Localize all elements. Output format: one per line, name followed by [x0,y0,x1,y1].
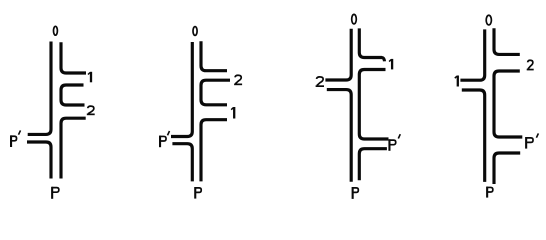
tree 3: wire from node P-prime down to node P [359,149,387,181]
tree 1: branch wire from node 0 to node 1 [61,42,86,73]
tree 2: stem wire from node 0 down then left to node P-prime [171,42,192,137]
tree 2: label 1 [233,107,235,119]
tree 3: label P [352,187,354,199]
tree 3: stem wire from node 0 down then left to node 2 [325,29,351,80]
tree 2: wire from node P-prime down to node P [172,144,192,182]
tree 1: wire from node P-prime down to node P [27,142,51,179]
tree 3: wire from node 2 down to node P [327,90,351,182]
tree 4: label 0 [486,15,491,25]
tree 4: label P [486,187,488,198]
tree 4: branch wire from node 0 to node 2 [494,28,520,54]
tree 4: label P-prime [525,137,527,149]
tree 1: label 0 [54,26,58,35]
tree 1: label 2 [88,106,94,114]
tree 1: stem wire from node 0 down then left to node P-prime [28,42,51,135]
tree 2: label 2 [235,75,241,83]
tree 3: wire from node 1 down to node P-prime [359,70,388,140]
tree 4: wire from node 2 down to node P-prime [494,71,522,137]
tree 3: branch wire from node 0 to node 1 [359,28,384,61]
tree 3: label P-prime [388,139,390,151]
tree 4: label 2 [528,60,533,69]
tree 2: branch wire from node 2 to node 1 [201,80,230,105]
tree 1: wire from node 2 down to node P [61,118,86,178]
tree 2: label 0 [193,27,197,36]
tree 4: stem wire from node 0 down then left to node 1 [460,29,484,80]
tree 1: label P-prime [10,135,12,147]
tree 4: label 1 [457,76,459,87]
tree 3: label 1 [391,59,393,70]
tree 1: label 1 [90,72,92,83]
tree 2: branch wire from node 0 to node 2 [201,41,227,70]
tree 1: label P [51,187,53,199]
tree 4: wire from node 1 down to node P [462,90,485,182]
tree 3: label 0 [352,14,357,24]
tree 4: wire from node P-prime down to node P [494,153,520,184]
tree 2: wire from node 1 down to node P [201,120,227,182]
tree 3: label 2 [317,77,324,86]
tree 2: label P [194,187,196,199]
tree 2: label P-prime [159,136,161,148]
tree 1: branch wire from node 1 to node 2 [61,85,85,105]
